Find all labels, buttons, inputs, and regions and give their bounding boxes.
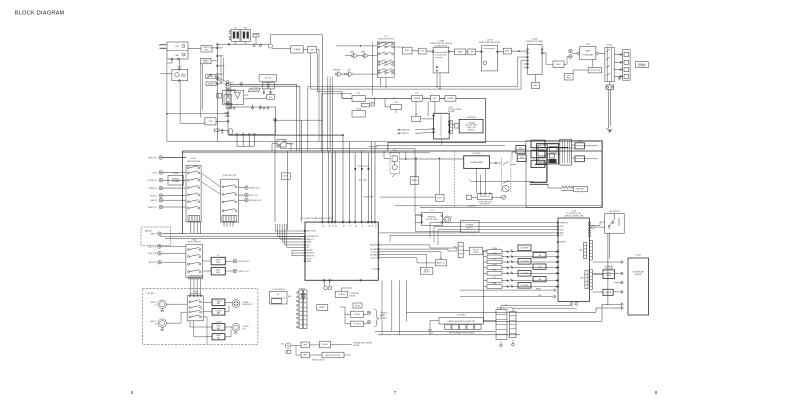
wire bbox=[484, 320, 497, 322]
fuse small bbox=[371, 103, 374, 106]
svg-text:MODE: MODE bbox=[356, 108, 361, 110]
wire bbox=[210, 47, 217, 49]
power transformer small bbox=[302, 293, 306, 297]
wire bbox=[163, 157, 186, 159]
svg-text:V-1: V-1 bbox=[217, 255, 220, 257]
protector box bbox=[588, 67, 601, 73]
svg-text:LED DRIVE: LED DRIVE bbox=[521, 285, 529, 287]
svg-text:SEP ADJ: SEP ADJ bbox=[208, 83, 214, 86]
wire c100 feeds bbox=[434, 226, 558, 228]
wire key switch drops bbox=[607, 233, 609, 304]
svg-text:P1: P1 bbox=[328, 225, 330, 227]
op-amp buffer A3 bbox=[353, 53, 357, 58]
wire bbox=[421, 118, 434, 120]
wire det outputs bbox=[236, 135, 238, 147]
svg-text:FM/MPX: FM/MPX bbox=[203, 60, 210, 62]
IC bottom pins bbox=[236, 134, 238, 136]
svg-text:S VIDEO: S VIDEO bbox=[215, 301, 222, 303]
svg-text:RESET: RESET bbox=[424, 269, 429, 271]
display box bbox=[575, 156, 585, 162]
wire bbox=[342, 73, 347, 75]
svg-text:MAIN: MAIN bbox=[585, 50, 590, 53]
wire bbox=[500, 342, 502, 345]
FL driver box A bbox=[531, 140, 545, 148]
svg-text:MIC: MIC bbox=[281, 344, 285, 346]
segment connector upper bbox=[584, 242, 587, 258]
speaker A box bbox=[516, 146, 526, 154]
power sw box bbox=[353, 303, 362, 308]
svg-text:BUFF: BUFF bbox=[405, 50, 411, 52]
junction pins bbox=[226, 81, 229, 84]
svg-text:IC201 REC SW: IC201 REC SW bbox=[223, 175, 236, 177]
graphic equalizer display box bbox=[439, 318, 484, 325]
svg-text:V-2 AMP: V-2 AMP bbox=[216, 320, 221, 323]
svg-text:REMOTE 1: REMOTE 1 bbox=[307, 255, 315, 257]
PCB outline right edge bbox=[601, 142, 603, 208]
system control PCB outline bbox=[526, 141, 603, 208]
svg-text:DATA IN: DATA IN bbox=[307, 249, 313, 252]
wire bus to power bbox=[281, 144, 415, 149]
IC right pin bbox=[275, 119, 277, 121]
svg-text:VIDEO 1 IN: VIDEO 1 IN bbox=[148, 253, 157, 255]
wire bbox=[239, 187, 245, 189]
buffer box 2 bbox=[455, 49, 466, 55]
manual box bbox=[361, 103, 369, 107]
switch box V1 bbox=[352, 95, 365, 101]
muting level box bbox=[206, 75, 216, 79]
ceramic filter CF2 bbox=[241, 30, 250, 42]
wire fs0 drops bbox=[380, 78, 382, 87]
wire trunk x218 bbox=[216, 64, 218, 142]
svg-text:IC-?: IC-? bbox=[415, 93, 420, 95]
svideo amp box 2 bbox=[212, 309, 225, 316]
svg-text:STROBE: STROBE bbox=[560, 242, 566, 244]
brace bbox=[374, 309, 379, 327]
connector CN102 bbox=[226, 83, 230, 108]
svg-text:BUFF: BUFF bbox=[458, 52, 464, 54]
svg-text:PHONO: PHONO bbox=[492, 253, 498, 255]
wire bbox=[161, 233, 186, 235]
svg-text:I2C CLK: I2C CLK bbox=[371, 252, 377, 254]
C-100 osc pins bbox=[570, 302, 573, 305]
wire bbox=[291, 345, 301, 347]
svg-text:T-501: T-501 bbox=[585, 44, 590, 46]
video jacks 2 bbox=[158, 245, 162, 249]
muting arrow bbox=[207, 74, 212, 78]
svg-text:7: 7 bbox=[394, 390, 397, 395]
wire FL bottom route bbox=[484, 320, 603, 322]
main power amp T-501 bbox=[580, 46, 596, 59]
reset switch box 2 bbox=[420, 267, 433, 274]
wire vert 180 bbox=[180, 81, 205, 123]
buffer box bbox=[402, 47, 412, 54]
svg-text:VIDEO: VIDEO bbox=[216, 335, 222, 337]
control hatch IC201 bbox=[222, 216, 237, 222]
wire thick feedback bbox=[485, 98, 487, 142]
PCB outline top edge bbox=[182, 150, 602, 152]
input jacks bbox=[159, 156, 163, 160]
tuner front end T101 bbox=[167, 42, 188, 59]
video amp box 4 bbox=[212, 334, 225, 340]
amp box m1 bbox=[301, 342, 310, 348]
wire bbox=[336, 45, 377, 47]
svg-text:MOTOR DRIVE: MOTOR DRIVE bbox=[426, 219, 437, 221]
svg-text:FL-801: FL-801 bbox=[635, 254, 641, 256]
svg-text:P0: P0 bbox=[321, 225, 323, 227]
DC regulator box bbox=[270, 292, 288, 305]
svg-text:DIGITAL DELAY: DIGITAL DELAY bbox=[434, 44, 448, 47]
wire bbox=[364, 313, 368, 315]
svg-text:DC DET, OVER LOAD: DC DET, OVER LOAD bbox=[478, 200, 492, 203]
svg-text:CF101: CF101 bbox=[177, 67, 182, 69]
FL driver box B bbox=[531, 150, 545, 158]
svg-text:DRIVE: DRIVE bbox=[606, 275, 611, 277]
svg-text:P5: P5 bbox=[349, 225, 351, 227]
svg-text:IN: IN bbox=[155, 305, 157, 307]
mute box 1 bbox=[410, 177, 419, 185]
svg-text:SW IN: SW IN bbox=[307, 258, 311, 260]
FM front box bbox=[201, 45, 212, 52]
display controller C-100 bbox=[558, 218, 590, 302]
PLL aux box bbox=[217, 94, 222, 99]
speaker B box bbox=[517, 155, 526, 162]
svg-text:TO DISPLAY: TO DISPLAY bbox=[350, 292, 360, 295]
svg-text:DISP: DISP bbox=[538, 295, 542, 297]
wire bbox=[412, 50, 419, 52]
reg box 12v bbox=[351, 321, 364, 327]
svg-text:REMOTE 2: REMOTE 2 bbox=[307, 253, 315, 255]
svg-text:BUFFER: BUFFER bbox=[447, 98, 454, 100]
memory box bbox=[575, 143, 585, 149]
wire riser to i2c bbox=[391, 280, 393, 331]
wire lower conn feed bbox=[230, 83, 297, 85]
AM bar antenna T201 bbox=[229, 128, 233, 134]
svg-text:OUT: OUT bbox=[243, 329, 246, 331]
svg-text:IC301: IC301 bbox=[173, 173, 179, 175]
wire bbox=[235, 41, 237, 44]
video amp box 1 bbox=[211, 257, 225, 265]
svg-text:4 BIT ELECTRONIC: 4 BIT ELECTRONIC bbox=[448, 109, 463, 111]
svg-text:AMP: AMP bbox=[216, 271, 219, 274]
svg-text:DC REGULATOR: DC REGULATOR bbox=[272, 288, 286, 291]
svg-text:AMP: AMP bbox=[534, 84, 539, 87]
svg-text:AUTO FUNC: AUTO FUNC bbox=[307, 230, 317, 233]
svg-text:CLK: CLK bbox=[430, 333, 433, 335]
wire bbox=[203, 301, 212, 303]
agc box bbox=[430, 95, 439, 101]
svg-text:PHONO IN: PHONO IN bbox=[148, 180, 158, 182]
FM/AM detector IC U101 bbox=[228, 107, 276, 135]
charger box bbox=[391, 105, 402, 110]
svg-text:CD IN: CD IN bbox=[152, 172, 158, 174]
svg-text:SW: SW bbox=[357, 93, 360, 95]
wire bbox=[374, 98, 376, 104]
AM OSC coil box bbox=[259, 75, 277, 81]
svg-text:FM IF: FM IF bbox=[219, 48, 223, 50]
pre out jacks bbox=[569, 49, 573, 53]
surround processor C-1800 bbox=[433, 47, 449, 73]
5V reg box b bbox=[317, 305, 328, 311]
protect box small bbox=[565, 73, 574, 80]
IF amp box bbox=[291, 46, 303, 53]
svg-text:MONITOR OUT: MONITOR OUT bbox=[239, 261, 250, 263]
wire bbox=[379, 252, 441, 260]
LVP-100 dashed box bbox=[142, 289, 258, 345]
svg-text:VIDEO 1 OUT: VIDEO 1 OUT bbox=[239, 271, 249, 273]
svg-text:LPF: LPF bbox=[209, 121, 213, 123]
svg-text:REMOTE: REMOTE bbox=[370, 245, 376, 247]
video amp box 2 bbox=[211, 267, 225, 275]
C-100 left pins bbox=[557, 222, 559, 224]
wire bbox=[614, 54, 622, 56]
wire fs1 bottom drops bbox=[190, 222, 192, 234]
svg-text:R: R bbox=[469, 179, 470, 181]
svg-text:AUX IN: AUX IN bbox=[151, 194, 158, 197]
wire AC cord bbox=[608, 89, 610, 128]
IC1 left pins bbox=[304, 230, 306, 232]
svg-text:REAR SPEED REDUCER: REAR SPEED REDUCER bbox=[479, 41, 501, 44]
lvp video2 jack bbox=[158, 300, 166, 308]
svg-text:(VHS,8mm,BS,TV): (VHS,8mm,BS,TV) bbox=[312, 360, 325, 362]
wire bus y152 bbox=[182, 152, 430, 154]
wire i2c clk bbox=[378, 334, 520, 336]
protector box 2 bbox=[478, 194, 493, 200]
svg-text:KEY SWITCH: KEY SWITCH bbox=[609, 211, 620, 213]
wire bbox=[423, 97, 431, 99]
microcontroller IC1 bbox=[305, 222, 378, 280]
svg-text:AMP: AMP bbox=[216, 261, 219, 264]
wire key bus bbox=[483, 251, 485, 324]
svg-text:OSC COIL: OSC COIL bbox=[264, 78, 271, 80]
wire bbox=[592, 226, 595, 229]
wire bus y141 bbox=[167, 141, 602, 143]
speaker system label box bbox=[636, 62, 649, 68]
svg-text:VOLUME: VOLUME bbox=[448, 111, 454, 113]
svg-text:OUT: OUT bbox=[219, 83, 222, 85]
label IC pins bbox=[230, 107, 232, 109]
mute box bbox=[281, 173, 290, 179]
IC1 top pins bbox=[321, 221, 323, 223]
wire bbox=[188, 48, 201, 50]
wire bbox=[252, 105, 254, 109]
svg-text:TAPE 2 IN: TAPE 2 IN bbox=[148, 156, 157, 159]
LED drive boxes mid bbox=[518, 245, 531, 251]
svg-text:TAPE MON: TAPE MON bbox=[333, 68, 341, 71]
svg-text:AM: AM bbox=[176, 54, 179, 57]
AC fuse F501 bbox=[606, 85, 614, 89]
svg-text:TAPE1: TAPE1 bbox=[361, 50, 366, 53]
svg-text:DUTY DRIVE: DUTY DRIVE bbox=[604, 268, 613, 270]
wire bbox=[416, 223, 462, 232]
svg-text:KEY/FUNCTION: KEY/FUNCTION bbox=[307, 236, 318, 238]
svg-text:TAPE2: TAPE2 bbox=[350, 50, 355, 53]
wire bbox=[216, 83, 217, 85]
wire FL route2 bbox=[406, 312, 596, 314]
wire bbox=[530, 183, 548, 185]
video1 out jack bbox=[233, 269, 237, 273]
svg-text:POWER: POWER bbox=[287, 143, 294, 145]
function switch IC201 bbox=[221, 179, 239, 222]
wire bbox=[201, 173, 220, 187]
wire riser bbox=[299, 86, 301, 151]
svg-text:AMP OUT: AMP OUT bbox=[307, 238, 314, 241]
fluorescent display FL-801 bbox=[628, 258, 649, 315]
svg-text:TECT: TECT bbox=[567, 77, 571, 79]
svg-text:AUDIO IN: AUDIO IN bbox=[149, 261, 157, 264]
svg-text:POWER AMP: POWER AMP bbox=[582, 54, 594, 57]
wire IC1 top risers bbox=[328, 151, 330, 222]
svg-text:P8: P8 bbox=[367, 225, 369, 227]
svg-text:VIDEO SWITCH: VIDEO SWITCH bbox=[189, 294, 202, 296]
svg-text:REG: REG bbox=[288, 296, 292, 298]
svg-text:MONITOR OUT: MONITOR OUT bbox=[243, 304, 254, 306]
speaker terminal block bbox=[623, 50, 631, 81]
amp box m2 bbox=[301, 352, 310, 358]
speaker relay RY501 bbox=[605, 47, 614, 82]
svg-text:METHOD: METHOD bbox=[353, 345, 360, 347]
wire bbox=[592, 60, 594, 68]
svg-text:P7: P7 bbox=[361, 225, 363, 227]
lvp audio2 jack bbox=[158, 319, 166, 327]
AT-9000 box bbox=[320, 341, 331, 348]
svg-text:VIDEO: VIDEO bbox=[216, 325, 222, 327]
svg-text:INT: INT bbox=[307, 247, 310, 249]
svg-text:DETECT: DETECT bbox=[473, 252, 479, 254]
computer side box bbox=[455, 123, 459, 128]
wire video drops bbox=[190, 279, 192, 295]
svg-text:I2C DATA: I2C DATA bbox=[370, 248, 377, 251]
switch box sw3 bbox=[412, 116, 421, 121]
svg-text:AMP: AMP bbox=[505, 50, 510, 53]
svg-text:uPD553: uPD553 bbox=[350, 295, 356, 297]
svg-text:REMOTE CONT. OUT: REMOTE CONT. OUT bbox=[326, 355, 341, 357]
svg-text:DISPLAY: DISPLAY bbox=[635, 273, 643, 276]
svg-text:EQ DATA: EQ DATA bbox=[370, 253, 376, 256]
svg-text:T-5: T-5 bbox=[302, 291, 304, 293]
computer box bbox=[459, 119, 483, 132]
output jacks bbox=[245, 186, 249, 190]
key select boxes bbox=[487, 250, 502, 254]
wire top bus bbox=[270, 34, 322, 36]
wire disp row bbox=[460, 296, 553, 298]
svg-text:SEG: SEG bbox=[580, 250, 584, 252]
wire bbox=[384, 157, 390, 159]
wire cluster links bbox=[545, 143, 560, 145]
svg-text:OFF TIME SW: OFF TIME SW bbox=[480, 203, 490, 205]
wire bbox=[303, 48, 307, 50]
wire bbox=[302, 297, 304, 302]
second pin strip bbox=[303, 290, 307, 329]
svg-text:19K: 19K bbox=[230, 82, 233, 84]
wire riser bbox=[329, 84, 331, 151]
video switch hatch bbox=[189, 276, 202, 279]
AM OSC box bbox=[267, 94, 275, 99]
svg-text:12V REG: 12V REG bbox=[353, 324, 361, 326]
wire bbox=[163, 157, 186, 159]
svg-text:LPF: LPF bbox=[470, 52, 474, 54]
svg-text:POWER ON: POWER ON bbox=[560, 222, 568, 224]
wire eq to c100 bbox=[501, 306, 572, 310]
svg-text:DRIVER: DRIVER bbox=[605, 292, 612, 294]
svg-text:LINE: LINE bbox=[347, 69, 350, 71]
op-amp buffer A4 bbox=[364, 53, 368, 58]
svg-text:KEY 2: KEY 2 bbox=[560, 229, 564, 231]
wire vert 166.9 bbox=[166, 60, 168, 142]
svg-text:LINE IN: LINE IN bbox=[150, 200, 157, 202]
svg-text:P2: P2 bbox=[331, 225, 333, 227]
svg-text:REC OUT: REC OUT bbox=[250, 195, 259, 197]
svg-text:AT-9000: AT-9000 bbox=[322, 343, 328, 346]
19k trap box bbox=[206, 82, 216, 86]
svg-text:WOOFER OUT: WOOFER OUT bbox=[250, 200, 263, 202]
wire bbox=[535, 75, 537, 83]
svg-text:WOOFER OUT (L): WOOFER OUT (L) bbox=[358, 166, 370, 168]
wire am feed bbox=[167, 113, 228, 115]
wire bbox=[497, 50, 503, 53]
svg-text:SUPPLY: SUPPLY bbox=[466, 228, 474, 230]
svg-text:VIDEO 2: VIDEO 2 bbox=[151, 302, 157, 304]
key switch box bbox=[605, 214, 625, 234]
svg-text:SYSTEM: SYSTEM bbox=[638, 66, 646, 68]
svg-text:4 CH AMP: 4 CH AMP bbox=[468, 121, 475, 124]
wire riser bbox=[296, 84, 298, 151]
svg-text:OSC: OSC bbox=[269, 97, 273, 99]
wire bbox=[542, 52, 546, 54]
rear speaker reducer C-1900 bbox=[482, 46, 498, 71]
svg-text:KEY 1: KEY 1 bbox=[560, 226, 564, 228]
PCB outline bottom edge bbox=[420, 207, 602, 209]
wire bbox=[160, 44, 167, 46]
svg-text:VIDEO: VIDEO bbox=[216, 260, 222, 262]
wire riser bbox=[287, 151, 289, 230]
crystal X2 bbox=[324, 286, 328, 290]
svg-text:EQ CLK: EQ CLK bbox=[371, 257, 377, 259]
wire riser bbox=[301, 120, 303, 222]
svg-text:RESET: RESET bbox=[319, 307, 325, 309]
svg-text:GRAPHIC EQUALIZER DISPLAY UNIT: GRAPHIC EQUALIZER DISPLAY UNIT bbox=[447, 320, 475, 323]
svg-text:XTAL: XTAL bbox=[254, 34, 258, 37]
svg-text:TONE, LOUD: TONE, LOUD bbox=[467, 127, 477, 129]
wire riser x323 bbox=[321, 35, 323, 222]
svg-text:RY501: RY501 bbox=[607, 45, 613, 47]
wire riser bbox=[327, 84, 329, 151]
video2 out jack bbox=[232, 323, 240, 331]
IC left pins bbox=[227, 112, 229, 114]
svg-text:VIDEO 2 IN: VIDEO 2 IN bbox=[148, 246, 157, 248]
wire IC1 left fan low bbox=[292, 249, 305, 251]
function switch S2 rec bbox=[377, 42, 394, 77]
reset switch box 1 bbox=[435, 260, 446, 266]
wire thick audio bbox=[341, 92, 343, 99]
svg-text:VIDEO: VIDEO bbox=[216, 270, 222, 272]
power supply box bbox=[461, 221, 480, 233]
wire lvp links bbox=[203, 316, 207, 318]
wire bus into C100 bbox=[430, 222, 558, 224]
wire left bus rows bbox=[163, 233, 305, 235]
wire bbox=[190, 321, 212, 327]
svg-text:5V REG: 5V REG bbox=[354, 314, 361, 316]
svideo amp box 1 bbox=[212, 299, 225, 306]
svg-text:CLK: CLK bbox=[560, 235, 563, 237]
SAW filter F101 bbox=[172, 69, 188, 80]
wire c1800 drops bbox=[436, 73, 438, 87]
wire bbox=[472, 196, 478, 198]
balance motor drive box bbox=[421, 212, 442, 225]
buffer box right bbox=[553, 61, 564, 68]
wire fs0 left vertical bbox=[372, 42, 374, 95]
svg-text:FM: FM bbox=[176, 46, 179, 48]
wire main IF line bbox=[217, 43, 268, 45]
